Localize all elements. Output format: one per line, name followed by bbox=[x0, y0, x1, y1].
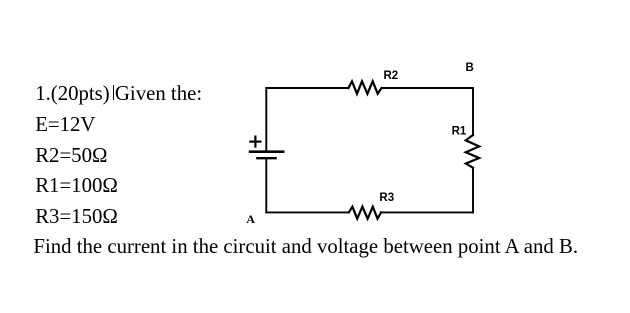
question line bbox=[33, 232, 578, 263]
battery E long plate (positive) bbox=[250, 150, 283, 153]
battery E short plate (negative) bbox=[257, 157, 275, 159]
wire top-left horizontal (left corner to R2) bbox=[266, 87, 348, 89]
battery plus sign bbox=[250, 137, 260, 147]
wire right lower vertical (R1 to bottom-right corner) bbox=[472, 168, 474, 213]
wire left lower vertical (corner A up to battery bottom) bbox=[265, 158, 267, 212]
svg-text:R3: R3 bbox=[379, 192, 394, 204]
svg-text:R2: R2 bbox=[384, 70, 399, 82]
svg-text:A: A bbox=[246, 212, 255, 226]
wire left upper vertical (battery top to top-left corner) bbox=[265, 88, 267, 152]
svg-text:B: B bbox=[466, 62, 474, 74]
svg-text:R1: R1 bbox=[452, 125, 467, 137]
wire top-right horizontal (R2 to top-right corner) bbox=[382, 87, 474, 89]
wire bottom-right horizontal (corner to R3) bbox=[381, 211, 473, 213]
wire bottom-left horizontal (R3 to bottom-left corner A) bbox=[266, 211, 349, 213]
text cursor caret before "Given" bbox=[113, 85, 114, 100]
resistor R1 (right side, vertical zigzag) bbox=[466, 135, 479, 168]
resistor R2 (top, zigzag) bbox=[348, 81, 381, 94]
problem statement text bbox=[35, 79, 202, 233]
wire right upper vertical (corner B down to R1) bbox=[472, 88, 474, 135]
resistor R3 (bottom, zigzag) bbox=[349, 207, 381, 219]
